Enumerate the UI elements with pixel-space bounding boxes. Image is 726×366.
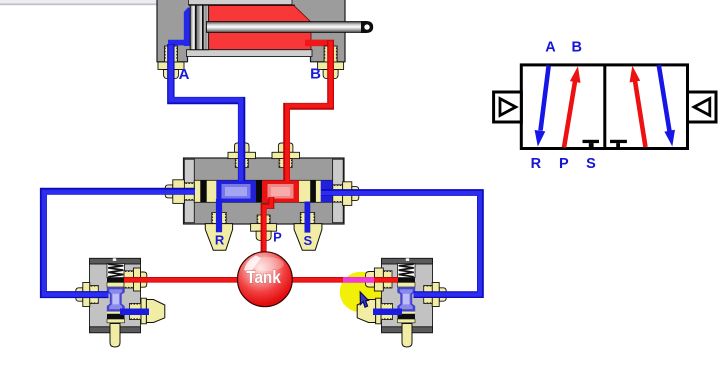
wire: left pilot loop — [43, 191, 195, 294]
svg-text:R: R — [531, 156, 542, 172]
svg-text:P: P — [273, 230, 282, 245]
fitting: valve right pilot port — [333, 182, 359, 206]
piston — [190, 5, 208, 50]
svg-text:P: P — [559, 156, 569, 172]
toolbar edge strip — [0, 0, 157, 5]
wire: tank supply line — [124, 277, 398, 283]
pilot valve PV1 (left) — [76, 258, 165, 347]
piston rod — [207, 22, 363, 33]
svg-text:B: B — [310, 66, 321, 83]
wire: valve P to tank — [264, 197, 272, 252]
muffler S — [294, 213, 322, 251]
cylinder blue chamber (port A side) — [168, 8, 191, 47]
svg-text:R: R — [215, 233, 225, 248]
cylinder inner top wall — [189, 0, 296, 6]
spool seal 3 — [310, 180, 316, 202]
spool seal 2 — [256, 180, 262, 202]
schematic: arrow right red — [630, 66, 646, 147]
muffler R — [205, 213, 232, 251]
cylinder red elbow (port B side) — [305, 40, 334, 47]
svg-text:A: A — [545, 39, 556, 55]
pilot valve PV2 (right, mirrored) — [357, 258, 446, 347]
schematic: right pilot symbol — [688, 92, 717, 122]
main valve bore — [194, 180, 332, 202]
cylinder red chamber — [191, 6, 311, 50]
wire: cylinder B to valve — [287, 40, 331, 181]
highlight circle — [340, 272, 383, 313]
wire: cylinder A to valve — [171, 44, 242, 181]
main valve left end cap — [184, 159, 194, 223]
cylinder inner bottom wall — [187, 50, 313, 57]
wire: valve S exhaust channel — [304, 202, 310, 233]
mouse cursor — [360, 292, 368, 307]
schematic: left pilot symbol — [494, 92, 522, 122]
fitting: valve left pilot port — [165, 180, 194, 204]
fitting: cylinder port A — [158, 46, 184, 79]
svg-text:B: B — [572, 39, 582, 55]
fitting: valve bottom port P — [251, 215, 277, 240]
schematic: arrow right blue — [659, 65, 675, 146]
spool seal 1 — [200, 180, 206, 202]
schematic: valve symbol box — [521, 65, 687, 149]
wire: right pilot exhaust — [373, 309, 402, 316]
valve blue chamber — [216, 180, 256, 202]
svg-text:S: S — [586, 156, 596, 172]
schematic: arrow P-B — [564, 66, 581, 147]
tank ball — [238, 252, 293, 307]
valve right blue passage — [321, 180, 333, 202]
wire: right pilot loop — [321, 193, 480, 295]
cylinder C1 body — [157, 0, 345, 62]
main valve right end cap — [333, 159, 344, 223]
valve red chamber — [262, 180, 299, 202]
svg-text:Tank: Tank — [246, 267, 281, 287]
wire: left pilot exhaust — [120, 309, 149, 316]
svg-text:A: A — [179, 66, 190, 83]
schematic: blocked port T1 — [583, 140, 600, 147]
svg-text:S: S — [303, 233, 312, 248]
wire: valve R exhaust channel — [216, 199, 222, 232]
fitting: valve top port B — [272, 143, 300, 168]
fitting: valve top port A — [228, 143, 256, 168]
rod end cap — [361, 21, 373, 33]
fitting: cylinder port B — [318, 46, 344, 79]
schematic: blocked port T2 — [610, 140, 627, 147]
main valve V1 body — [184, 158, 345, 224]
schematic: arrow A-R — [535, 66, 549, 147]
magenta overlap — [343, 277, 374, 283]
